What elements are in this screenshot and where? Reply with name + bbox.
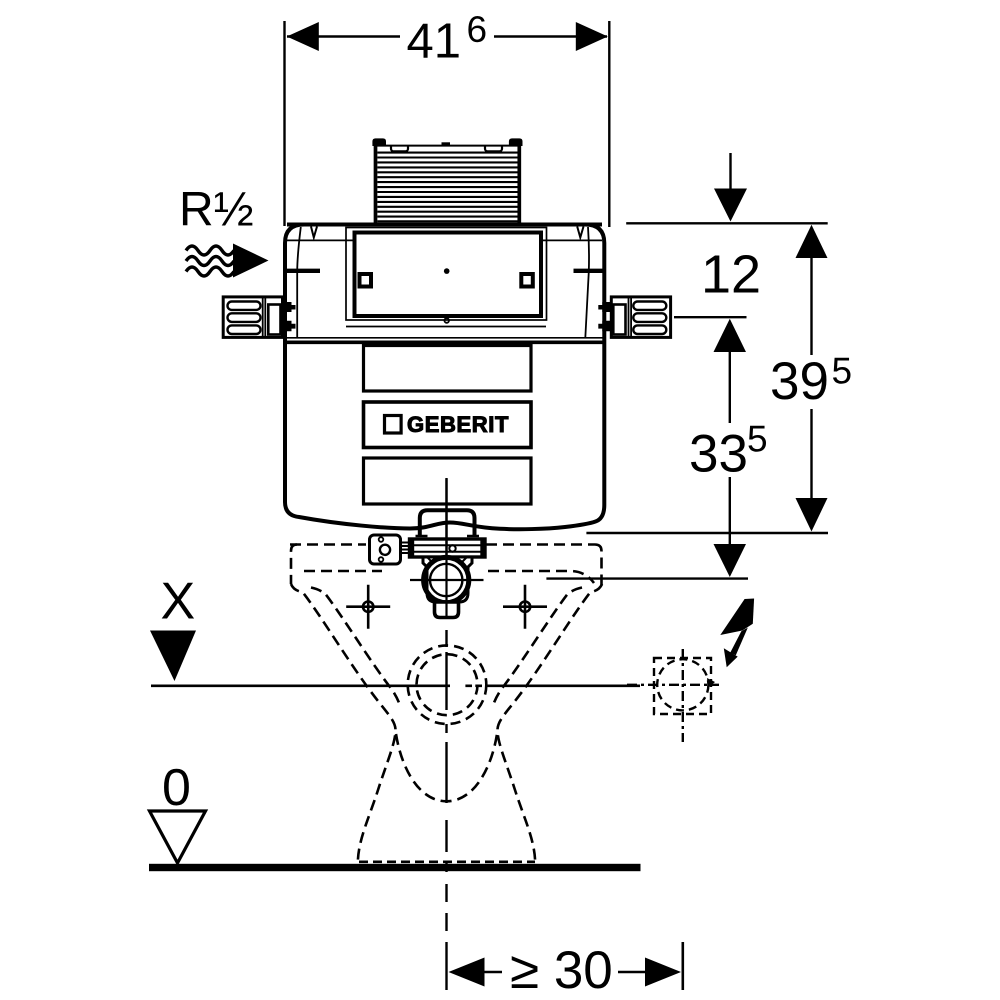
clamp inner lines [410,545,486,552]
e-box horizontal centre line [627,684,719,686]
plate hole centre [380,545,390,555]
inlet bracket plate [370,535,401,564]
pan rim top edge left [290,543,366,546]
dome bottom flanges [416,535,480,537]
svg-text:GEBERIT: GEBERIT [407,412,509,437]
supply waves [186,246,234,276]
bowl interior U curve [396,734,497,801]
inner tank rectangle 3 [364,458,532,504]
tank rail line (thick) [285,340,604,344]
svg-text:41: 41 [407,15,462,69]
outlet clamp block [410,539,486,557]
panel bottom small mark [444,318,449,323]
arrowhead right [576,22,608,51]
elbow corner notch right [462,557,467,562]
dimension line [287,35,607,37]
right wall rail (mirror) [598,297,670,338]
bowl inner contour right [493,588,583,708]
trap outer dashed circle [408,645,487,724]
pan rim top edge right [486,543,595,546]
inner wall line left [297,227,301,338]
svg-text:5: 5 [747,419,768,460]
X level line [151,684,450,687]
down arrow shaft [729,153,731,190]
arrowhead left [287,22,319,51]
box clip notch left [391,146,408,151]
inner wall line right [585,227,589,338]
shaft upper [729,350,731,423]
shaft right [618,971,647,973]
bowl outer contour + pedestal right edge [497,584,602,860]
pedestal bottom dashed edge [359,860,535,863]
e-box dashed circle [657,659,708,710]
body outline with rounded top corners [285,225,604,345]
down arrowhead [796,498,828,532]
lid seam line right [543,239,602,241]
plate hole top [379,537,384,542]
ledge line [285,337,604,339]
left wall rail [223,297,295,338]
panel centre dot [444,268,450,274]
svg-text:0: 0 [162,759,191,817]
svg-text:X: X [161,573,196,631]
valve dome housing [420,510,475,536]
box top edge [377,145,518,147]
arrowhead right [645,958,681,987]
inner tank rectangle 1 [364,346,532,392]
moulding V notch left [311,227,317,238]
bowl outer contour + pedestal left edge [291,584,396,860]
X level filled triangle [150,631,196,682]
outlet ring inner [430,564,462,596]
box clip notch right [485,146,502,151]
ref line rail level (12 bottom) [674,316,747,318]
svg-text:12: 12 [701,245,761,305]
box side wall right [517,140,521,223]
body top edge line [287,223,602,227]
shaft left [483,971,502,973]
lid seam line left [287,239,353,241]
side step line right [574,269,604,273]
arrowhead left [449,958,485,987]
Geberit logo square [385,416,402,434]
centre line of bowl (dash-dot) [445,478,447,619]
up arrowhead [714,319,747,352]
threaded rod hatches [401,543,410,554]
pan rim left edge [291,545,297,585]
tank walls and bottom [285,344,604,529]
box hatch lines [377,153,517,222]
svg-text:5: 5 [832,351,853,392]
elbow centre cross vertical [445,479,447,618]
up arrowhead [796,225,828,258]
e-box cable stub [707,678,715,688]
fixing cross right [503,585,547,629]
outlet stub [435,602,459,618]
side step line left [284,269,320,273]
svg-text:33: 33 [689,425,748,484]
extension line left [283,21,285,226]
svg-text:≥ 30: ≥ 30 [510,941,613,1000]
moulding V notch right [577,227,583,238]
service frame thin rect [346,228,547,321]
shaft lower [729,477,731,546]
elbow corner notch left [427,557,432,562]
e-box vertical centre line [682,649,684,742]
svg-text:6: 6 [467,9,488,50]
bowl inner contour left [311,588,401,708]
ground line (thick) [149,864,641,871]
box top centre bump [442,142,451,146]
elbow housing [423,557,472,602]
clamp end cap left [411,539,414,557]
clamp centre bump [449,545,455,551]
plate hole bottom [379,557,384,562]
e-box dashed square [654,658,711,714]
inner tank rectangle 2 (logo) [364,402,532,448]
pan rim hidden bottom edge left [304,570,382,573]
panel fixing square right [521,274,533,287]
service access panel [355,233,542,317]
box side wall left [374,140,378,223]
down arrowhead [714,544,747,577]
shaft lower [810,409,812,500]
pan rim hidden bottom edge right [488,571,594,583]
e-box vertical tick at dimension line [681,942,684,990]
elbow centre cross horizontal [410,579,484,581]
extension line right [608,21,610,227]
supply arrow [233,244,269,278]
svg-text:39: 39 [770,352,829,411]
box corner tab right [509,138,523,146]
pan rim right edge [595,545,602,589]
lightning bolt arrow [720,599,754,668]
ref line bottom of cistern (39.5 bottom) [586,532,828,534]
svg-text:R½: R½ [179,184,254,237]
ref line outlet centre (33.5 bottom) [546,577,748,579]
box corner tab left [372,138,386,146]
clamp end cap right [480,539,483,557]
0 level open triangle [150,811,206,863]
flange line 1 [346,326,546,328]
outlet ring outer [424,557,469,602]
ref line top of cistern (12/39.5 top) [626,222,828,224]
panel fixing square left [360,274,372,287]
down arrowhead [714,189,747,222]
shaft upper [810,256,812,355]
fixing cross left [346,585,390,629]
trap inner dashed circle [417,654,478,715]
